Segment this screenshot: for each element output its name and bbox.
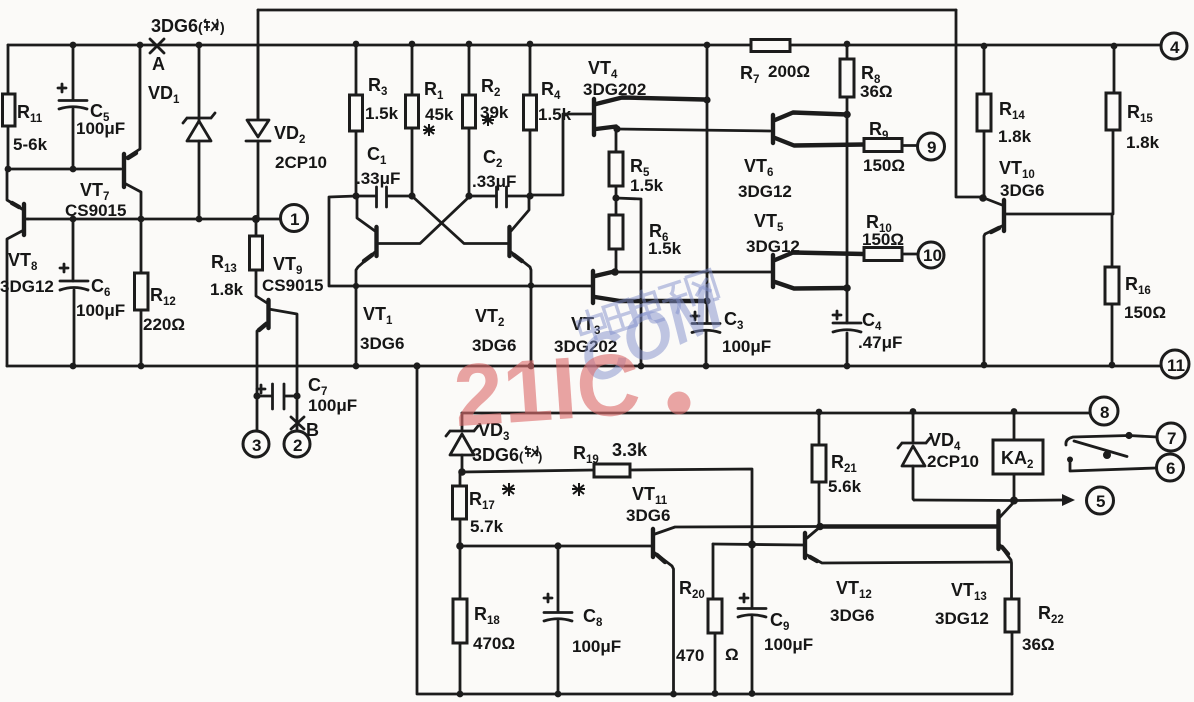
svg-text:7: 7 bbox=[1167, 429, 1176, 448]
svg-text:1.5k: 1.5k bbox=[648, 239, 682, 258]
svg-text:1.8k: 1.8k bbox=[1126, 133, 1160, 152]
resistor R15 1.8k bbox=[1106, 46, 1160, 214]
svg-text:Ω: Ω bbox=[725, 645, 739, 664]
diode VD2 2CP10 bbox=[246, 45, 327, 219]
resistor R17 5.7k bbox=[453, 472, 586, 546]
wire x707 vertical rail to C3 bbox=[703, 45, 710, 366]
svg-text:200Ω: 200Ω bbox=[768, 62, 810, 81]
svg-text:1.5k: 1.5k bbox=[630, 176, 664, 195]
resistor R5 1.5k bbox=[609, 129, 664, 198]
resistor R20 470ohm bbox=[676, 544, 739, 693]
terminal 4 bbox=[1161, 33, 1187, 59]
terminal 6 bbox=[1157, 454, 1184, 481]
terminal 5 bbox=[1087, 487, 1114, 514]
resistor R19 3.3k bbox=[458, 440, 752, 544]
resistor R11 5-6k bbox=[3, 94, 48, 169]
resistor R18 470ohm bbox=[453, 546, 515, 694]
capacitor C9 100uF bbox=[738, 545, 813, 694]
svg-text:4: 4 bbox=[1170, 38, 1180, 57]
resistor R16 150ohm bbox=[1105, 214, 1166, 365]
svg-text:2CP10: 2CP10 bbox=[927, 452, 979, 471]
svg-text:): ) bbox=[538, 449, 542, 464]
capacitor C8 100uF bbox=[544, 546, 621, 694]
wire R4 node to VT4 base bbox=[530, 114, 591, 195]
diode VD1 bbox=[183, 45, 215, 219]
wire bottom rail of upper section bbox=[7, 362, 1161, 370]
svg-text:3DG6(: 3DG6( bbox=[151, 16, 203, 36]
transistor VT7 CS9015 bbox=[65, 45, 141, 220]
wire mid bus y219 to terminal 1 bbox=[28, 215, 280, 223]
terminal 2 bbox=[284, 431, 310, 457]
resistor R8 36ohm bbox=[840, 44, 893, 366]
svg-text:3DG12: 3DG12 bbox=[738, 182, 792, 201]
transistor VT13 3DG12 bbox=[935, 502, 1014, 628]
wire VT3 node to VT5 base bbox=[615, 271, 771, 274]
svg-text:5.7k: 5.7k bbox=[470, 517, 504, 536]
resistor R2 39k bbox=[463, 44, 509, 196]
svg-text:6: 6 bbox=[1166, 459, 1175, 478]
svg-text:3DG6: 3DG6 bbox=[626, 506, 670, 525]
node A mark with label 3DG6(gai) bbox=[148, 16, 225, 106]
resistor R9 150ohm to terminal 9 bbox=[863, 119, 917, 175]
relay contact switch bbox=[1066, 432, 1157, 471]
svg-text:2: 2 bbox=[293, 436, 302, 455]
watermark red dot bbox=[668, 392, 691, 415]
svg-text:3DG202: 3DG202 bbox=[583, 80, 646, 99]
wire feed from upper rail to lower section bbox=[417, 366, 1012, 697]
wire base line of VT7 bbox=[5, 166, 121, 173]
svg-text:3DG12: 3DG12 bbox=[0, 277, 54, 296]
resistor R10 150ohm to terminal 10 bbox=[862, 212, 917, 261]
wire VT4 emitter bus to x707 bbox=[703, 96, 710, 103]
terminal 8 bbox=[1090, 397, 1118, 425]
svg-text:3DG6: 3DG6 bbox=[1000, 181, 1044, 200]
svg-text:): ) bbox=[220, 19, 225, 35]
svg-text:5-6k: 5-6k bbox=[13, 135, 48, 154]
transistor VT9 CS9015 bbox=[257, 254, 323, 431]
svg-text:100μF: 100μF bbox=[76, 119, 125, 138]
watermark blue COM bbox=[567, 270, 734, 399]
svg-text:5: 5 bbox=[1096, 492, 1105, 511]
resistor R6 1.5k bbox=[609, 194, 682, 272]
relay coil KA2 bbox=[993, 411, 1043, 500]
svg-text:5.6k: 5.6k bbox=[828, 477, 862, 496]
svg-text:36Ω: 36Ω bbox=[1022, 635, 1055, 654]
wire coupling U path VT1 collector to VT3 base bbox=[329, 196, 591, 289]
resistor R4 1.5k bbox=[524, 44, 572, 195]
svg-text:2CP10: 2CP10 bbox=[275, 153, 327, 172]
svg-text:1.8k: 1.8k bbox=[998, 127, 1032, 146]
wire VT4 collector bus to VT6 base bbox=[613, 125, 770, 132]
terminal 3 bbox=[243, 431, 269, 457]
svg-text:150Ω: 150Ω bbox=[862, 230, 904, 249]
svg-text:150Ω: 150Ω bbox=[863, 156, 905, 175]
svg-text:100μF: 100μF bbox=[572, 637, 621, 656]
svg-text:36Ω: 36Ω bbox=[860, 82, 893, 101]
wire VT11 base line bbox=[456, 542, 651, 550]
resistor R14 1.8k bbox=[977, 46, 1032, 198]
svg-text:3DG6: 3DG6 bbox=[830, 606, 874, 625]
svg-text:3DG12: 3DG12 bbox=[935, 609, 989, 628]
capacitor C4 .47uF bbox=[833, 310, 902, 352]
wire lower section top rail to terminal 8 bbox=[462, 408, 1089, 415]
capacitor C2 .33uF bbox=[465, 147, 533, 207]
terminal 7 bbox=[1157, 423, 1185, 451]
transistor VT3 3DG202 bbox=[554, 268, 707, 356]
capacitor C7 100uF bbox=[253, 375, 357, 415]
svg-text:A: A bbox=[152, 54, 165, 74]
terminal 11 bbox=[1161, 350, 1189, 378]
svg-text:100μF: 100μF bbox=[76, 301, 125, 320]
svg-text:100μF: 100μF bbox=[308, 396, 357, 415]
resistor R22 36ohm bbox=[1005, 599, 1064, 694]
wire VT13 base line bbox=[816, 523, 996, 531]
capacitor C1 .33uF bbox=[352, 144, 415, 207]
transistor VT2 3DG6 bbox=[412, 196, 531, 366]
svg-text:100μF: 100μF bbox=[722, 337, 771, 356]
svg-text:1.8k: 1.8k bbox=[210, 280, 244, 299]
svg-text:.33μF: .33μF bbox=[356, 169, 400, 188]
svg-text:470: 470 bbox=[676, 646, 704, 665]
transistor VT5 3DG12 bbox=[746, 211, 864, 292]
svg-text:3DG6: 3DG6 bbox=[360, 334, 404, 353]
resistor R12 220ohm bbox=[135, 219, 186, 366]
svg-text:10: 10 bbox=[923, 246, 942, 265]
wire VD4-KA2 bottom line to terminal 5 bbox=[914, 494, 1075, 506]
svg-text:3: 3 bbox=[252, 436, 261, 455]
svg-text:470Ω: 470Ω bbox=[473, 634, 515, 653]
diode VD4 2CP10 bbox=[898, 411, 979, 500]
transistor VT6 3DG12 bbox=[738, 111, 864, 201]
terminal 10 bbox=[918, 242, 944, 268]
resistor R13 1.8k bbox=[210, 219, 267, 303]
transistor VT4 3DG202 bbox=[583, 58, 704, 135]
svg-text:45k: 45k bbox=[425, 105, 454, 124]
svg-text:CS9015: CS9015 bbox=[262, 276, 323, 295]
svg-text:.47μF: .47μF bbox=[858, 333, 902, 352]
resistor R7 200ohm bbox=[740, 40, 810, 87]
node B mark bbox=[291, 396, 319, 440]
terminal 1 bbox=[281, 205, 308, 232]
watermark red 21IC bbox=[451, 333, 643, 445]
capacitor C5 100uF bbox=[58, 45, 125, 169]
capacitor C6 100uF bbox=[60, 219, 125, 366]
wire R5-R6 node bypass to bottom rail bbox=[616, 198, 641, 366]
svg-text:.33μF: .33μF bbox=[472, 172, 516, 191]
wire main top supply rail bbox=[8, 41, 1161, 50]
svg-text:150Ω: 150Ω bbox=[1124, 303, 1166, 322]
transistor VT10 3DG6 bbox=[979, 158, 1112, 365]
diode VD3 3DG6(gai) bbox=[446, 413, 542, 472]
transistor VT1 3DG6 bbox=[356, 196, 470, 366]
terminal 9 bbox=[918, 133, 945, 160]
resistor R21 5.6k bbox=[812, 412, 862, 526]
resistor R1 45k bbox=[406, 44, 454, 196]
svg-text:8: 8 bbox=[1100, 403, 1109, 422]
svg-text:220Ω: 220Ω bbox=[143, 315, 185, 334]
watermark blue chinese characters bbox=[574, 268, 720, 345]
svg-text:1.5k: 1.5k bbox=[365, 104, 399, 123]
transistor VT8 3DG12 bbox=[0, 169, 54, 366]
capacitor C3 100uF bbox=[691, 309, 771, 356]
transistor VT11 3DG6 bbox=[626, 484, 820, 694]
resistor R3 1.5k bbox=[350, 44, 399, 196]
svg-text:11: 11 bbox=[1167, 356, 1185, 375]
svg-text:1: 1 bbox=[290, 210, 299, 229]
wire top auxiliary rail T0 bbox=[258, 10, 983, 197]
svg-text:100μF: 100μF bbox=[764, 635, 813, 654]
svg-text:9: 9 bbox=[927, 138, 936, 157]
svg-text:3.3k: 3.3k bbox=[612, 440, 648, 460]
svg-text:3DG6(: 3DG6( bbox=[472, 445, 524, 465]
transistor VT12 3DG6 bbox=[805, 527, 1011, 625]
wire VT12 base line bbox=[713, 541, 803, 549]
svg-text:21IC: 21IC bbox=[451, 333, 643, 445]
wire left vertical from rail to R11 bbox=[7, 45, 10, 94]
svg-text:3DG12: 3DG12 bbox=[746, 237, 800, 256]
